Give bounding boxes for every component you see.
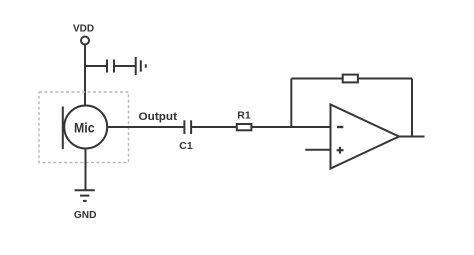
ground [75,189,95,191]
wire capacitor to ground [114,65,136,67]
wire non-inverting input [305,149,330,151]
wire VDD branch to bypass capacitor [85,65,107,67]
op-amp U1 [331,105,400,169]
ground (sideways) [135,57,137,75]
wire feedback top [291,78,412,80]
svg-text:Mic: Mic [74,120,95,136]
capacitor C1 [183,120,185,134]
svg-text:GND: GND [74,209,97,221]
wire VDD to mic [84,45,86,107]
svg-text:VDD: VDD [73,24,94,35]
microphone Mic body [64,106,107,149]
wire C1 to R1 [191,126,237,128]
resistor R1 [237,124,252,130]
svg-text:R1: R1 [237,110,251,122]
wire op-amp output [399,136,425,138]
mic module dashed boundary [39,92,129,163]
svg-text:C1: C1 [179,140,193,152]
wire junction to feedback [290,79,292,128]
op-amp non-inverting pin mark [337,149,344,151]
wire feedback to output [411,79,413,137]
wire mic output [107,126,184,128]
power terminal VDD [81,37,89,45]
wire mic to ground [85,149,87,191]
svg-text:Output: Output [139,111,178,123]
op-amp inverting pin mark [337,126,343,128]
microphone membrane [62,107,64,150]
wire R1 to op-amp inverting input [251,126,330,128]
resistor feedback [343,75,358,83]
capacitor bypass [106,60,108,73]
